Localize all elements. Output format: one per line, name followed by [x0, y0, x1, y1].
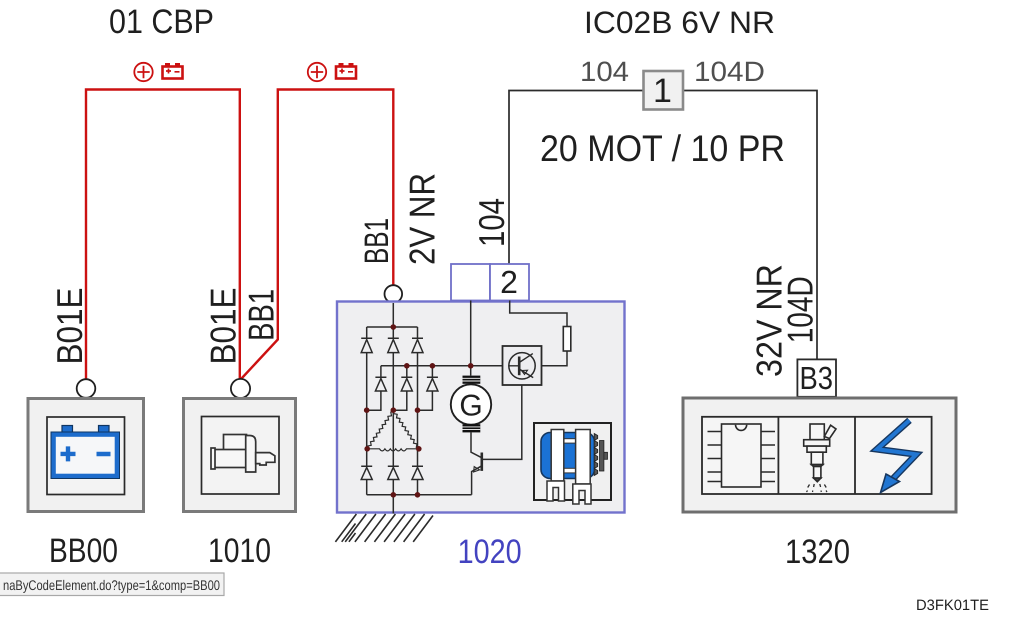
label 1020	[458, 533, 522, 571]
label 2V NR	[402, 173, 443, 265]
node terminal 1020	[385, 285, 403, 303]
label 104D (vertical right)	[779, 276, 820, 343]
svg-text:1: 1	[653, 72, 672, 110]
wire to B3 vertical handled above; label 32V NR	[748, 264, 789, 377]
ground (below 1020)	[335, 514, 433, 542]
diode D2	[388, 338, 399, 352]
label 104 (left of connector 1)	[580, 56, 629, 87]
diode D7	[361, 466, 372, 479]
label 104 (vertical, above connector 2)	[471, 198, 512, 247]
svg-text:104: 104	[580, 56, 629, 87]
svg-text:G: G	[459, 390, 482, 423]
label 1320	[785, 533, 850, 571]
wire middle diode jogs	[367, 391, 433, 410]
wire bottom bus	[367, 494, 472, 496]
label BB1 (wire to 1010)	[241, 289, 282, 341]
svg-text:2V NR: 2V NR	[402, 173, 443, 265]
svg-text:1020: 1020	[458, 533, 522, 571]
label 1010	[208, 532, 271, 570]
svg-text:D3FK01TE: D3FK01TE	[916, 597, 989, 614]
wire black IC02B net (top)	[509, 91, 817, 360]
svg-text:naByCodeElement.do?type=1&comp: naByCodeElement.do?type=1&comp=BB00	[3, 577, 220, 593]
diode D4	[375, 377, 386, 391]
wire red supply 1 (to BB00 and 1010)	[86, 90, 240, 380]
label BB00	[49, 532, 118, 570]
node terminal 1010	[231, 379, 250, 398]
svg-text:1010: 1010	[208, 532, 271, 570]
component 1020 alternator outer box	[337, 302, 625, 513]
diode D9	[412, 466, 423, 479]
wire red supply 2 (to 1010 and 1020)	[242, 90, 394, 379]
plate code D3FK01TE	[916, 597, 989, 614]
svg-text:104D: 104D	[694, 56, 765, 87]
diode D3	[412, 338, 423, 352]
wire from connector 2 left cell to rotor	[470, 301, 472, 376]
generator G (rotor)	[451, 376, 491, 433]
status bar tooltip	[0, 573, 224, 596]
svg-text:BB00: BB00	[49, 532, 118, 570]
svg-text:B01E: B01E	[49, 288, 90, 365]
svg-text:20 MOT / 10 PR: 20 MOT / 10 PR	[540, 128, 785, 169]
diode D6	[427, 377, 438, 391]
junction dots	[364, 324, 474, 497]
wire regulator to transistor base	[483, 385, 522, 459]
svg-text:1320: 1320	[785, 533, 850, 571]
svg-text:104: 104	[471, 198, 512, 247]
regulator U1 (K in circle)	[503, 346, 542, 385]
connector B3	[797, 359, 836, 396]
label 20 MOT / 10 PR	[540, 128, 785, 169]
svg-text:01 CBP: 01 CBP	[109, 3, 214, 41]
component 1320 ECU	[683, 398, 956, 512]
svg-text:B3: B3	[800, 360, 834, 396]
battery plus symbol 2	[308, 63, 356, 81]
component BB00 battery	[28, 399, 144, 512]
svg-text:BB1: BB1	[358, 218, 396, 264]
1320 icon: IC chip	[708, 424, 776, 487]
diode D5	[401, 377, 412, 391]
inline connector 1	[644, 71, 684, 110]
label B01E (wire to 1010)	[203, 288, 244, 365]
resistor R1	[563, 327, 571, 352]
svg-text:B01E: B01E	[203, 288, 244, 365]
wire rectifier top bus	[367, 326, 418, 328]
wire excitation bus	[381, 366, 503, 378]
svg-text:104D: 104D	[779, 276, 820, 343]
svg-text:BB1: BB1	[241, 289, 282, 341]
label harness 01 CBP	[109, 3, 214, 41]
1320 icon: lightning bolt	[877, 420, 916, 492]
wire resistor to regulator	[542, 351, 568, 366]
battery plus symbol 1	[134, 63, 182, 81]
component 1010 starter motor	[184, 399, 296, 512]
label BB1 (wire to 1020)	[358, 218, 396, 264]
1320 icon: injector	[804, 424, 836, 492]
label harness IC02B 6V NR	[584, 5, 775, 40]
diode D1	[361, 338, 372, 352]
transistor Q1	[471, 432, 482, 494]
wire from connector 2 to resistor	[510, 301, 567, 327]
connector 2 on 1020 (two cells)	[451, 264, 529, 301]
winding delta (stator)	[367, 411, 419, 451]
alternator pictogram box	[534, 423, 611, 504]
label 104D (right of connector 1)	[694, 56, 765, 87]
svg-text:IC02B 6V NR: IC02B 6V NR	[584, 5, 775, 40]
label B01E (wire to BB00)	[49, 288, 90, 365]
node terminal BB00	[77, 379, 96, 398]
diode D8	[388, 466, 399, 479]
svg-text:2: 2	[500, 264, 518, 300]
wire stator phase columns	[367, 303, 418, 514]
